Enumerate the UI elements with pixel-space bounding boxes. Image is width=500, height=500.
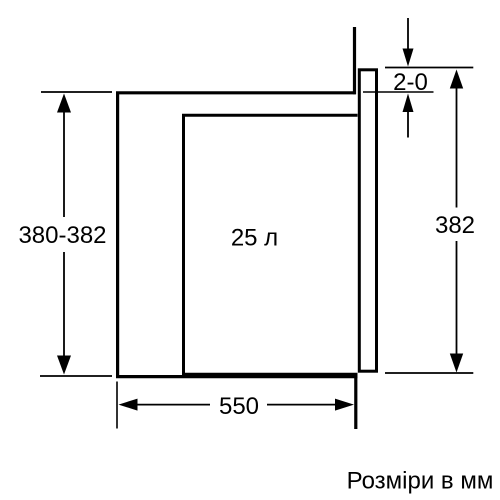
- svg-text:Розміри в мм: Розміри в мм: [347, 468, 494, 495]
- svg-text:25 л: 25 л: [231, 224, 278, 251]
- svg-text:380-382: 380-382: [18, 222, 106, 249]
- extension line 2-0 upper: [385, 67, 473, 69]
- label 382: [435, 212, 475, 239]
- cabinet front extension below niche: [354, 375, 357, 430]
- extension line top left: [41, 91, 112, 93]
- extension line 550 left: [116, 382, 118, 429]
- arrow 2-0 upper: [403, 18, 414, 67]
- dimension line 380-382: [57, 94, 71, 375]
- niche outline: [118, 93, 358, 377]
- dimension line 382: [450, 70, 463, 373]
- extension line bottom left: [40, 375, 112, 377]
- label 550: [219, 393, 259, 420]
- door panel: [359, 70, 376, 371]
- svg-text:2-0: 2-0: [393, 69, 428, 96]
- extension line 382 bottom: [385, 372, 473, 374]
- extension line 2-0 lower: [363, 91, 434, 93]
- arrow 2-0 lower: [403, 94, 414, 138]
- microwave body outline: [184, 115, 358, 374]
- caption dimensions in mm: [347, 468, 494, 495]
- label 2-0: [393, 69, 428, 96]
- svg-text:382: 382: [435, 212, 475, 239]
- label 25 l: [231, 224, 278, 251]
- svg-text:550: 550: [219, 393, 259, 420]
- cabinet front panel above niche: [353, 27, 356, 94]
- dimension line 550: [119, 399, 355, 411]
- label 380-382: [18, 222, 106, 249]
